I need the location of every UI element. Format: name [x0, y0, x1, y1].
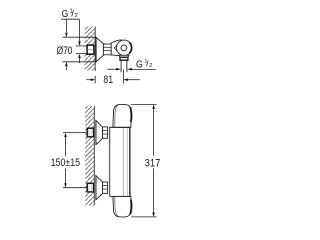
- handle axis small circle (top view): [121, 45, 127, 51]
- upper hex nut (side view): [87, 128, 93, 137]
- handle circle (top view): [117, 40, 132, 55]
- outlet pipe (top view): [121, 60, 127, 72]
- lower union nut (side view): [103, 182, 108, 193]
- lower escutcheon cone (side view): [96, 176, 103, 200]
- wall hatching (side view): [85, 106, 94, 206]
- mixer body (top view): [111, 40, 131, 56]
- dimension 150±15 (connection spacing): [51, 133, 88, 188]
- svg-text:Ø70: Ø70: [57, 45, 73, 57]
- handle circle shading right: [130, 43, 132, 54]
- union nut (top view): [103, 44, 111, 55]
- upper escutcheon cone (side view): [96, 121, 103, 145]
- dimension G 1/2 (top inlet): [61, 9, 81, 63]
- wall hatching (top view): [83, 27, 96, 71]
- svg-text:2: 2: [75, 13, 78, 19]
- svg-text:G: G: [136, 59, 143, 70]
- svg-text:81: 81: [103, 74, 113, 86]
- outlet boss (top view): [119, 55, 129, 57]
- svg-text:G: G: [62, 9, 69, 20]
- svg-text:150±15: 150±15: [51, 157, 81, 169]
- top cap / handle (side view): [110, 104, 131, 127]
- dimension G 1/2 (shower outlet): [107, 58, 155, 70]
- dimension 81 (wall to outlet): [86, 69, 140, 86]
- upper union nut (side view): [103, 127, 108, 138]
- dimension 317 (overall length): [131, 104, 161, 216]
- lower hex nut (side view): [87, 183, 93, 192]
- body tube (side view): [110, 127, 130, 196]
- escutcheon cone (top view): [96, 37, 103, 62]
- hex nut on wall (top view): [87, 45, 94, 54]
- outlet nut (top view): [120, 57, 128, 60]
- svg-text:2: 2: [149, 63, 152, 69]
- svg-text:317: 317: [145, 157, 161, 169]
- dimension Ø70 (escutcheon): [57, 19, 97, 70]
- supply pipe stub behind wall (top view): [76, 46, 88, 54]
- bottom cap / handle (side view): [110, 196, 131, 217]
